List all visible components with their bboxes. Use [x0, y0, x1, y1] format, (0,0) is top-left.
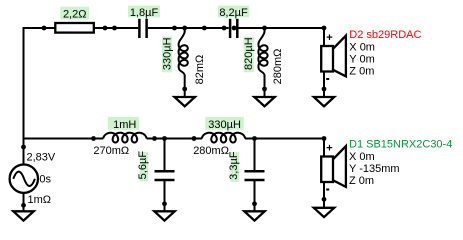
- node dot mid top rail: [202, 26, 207, 31]
- svg-text:8,2µF: 8,2µF: [219, 7, 248, 19]
- inductor 330uH coil: [179, 32, 188, 76]
- node dot source top terminal: [21, 145, 26, 150]
- node dot junction C5,6: [162, 136, 167, 141]
- speaker D2 stub bottom: [323, 72, 325, 98]
- svg-text:D1 SB15NRX2C30-4: D1 SB15NRX2C30-4: [349, 139, 452, 151]
- wire bottom rail seg2: [147, 138, 202, 140]
- capacitor 3,3uF label: [231, 152, 240, 182]
- svg-text:1mH: 1mH: [113, 119, 136, 131]
- ground L820: [254, 97, 274, 106]
- source stub bottom: [23, 193, 25, 212]
- node dot above ground source: [21, 203, 26, 208]
- svg-text:Z 0m: Z 0m: [349, 175, 374, 187]
- node dot left of resistor: [42, 26, 47, 31]
- wire top rail mid segment: [148, 27, 229, 29]
- svg-text:X 0m: X 0m: [349, 151, 375, 163]
- wire top rail left segment: [24, 27, 139, 29]
- speaker D2 stub top: [323, 27, 325, 46]
- capacitor 3,3uF stub bottom: [254, 181, 256, 211]
- svg-text:Y 0m: Y 0m: [349, 54, 374, 66]
- svg-text:0s: 0s: [39, 173, 51, 185]
- inductor 820uH stub bottom: [264, 75, 266, 97]
- node dot cap1 terminal: [112, 26, 117, 31]
- node dot before 1mH: [91, 136, 96, 141]
- svg-text:3,3µF: 3,3µF: [228, 151, 240, 180]
- capacitor 8,2uF label: [218, 6, 249, 18]
- inductor 820uH stub top: [264, 28, 266, 32]
- node dot junction 820uH: [262, 26, 267, 31]
- inductor 330uH stub bottom: [184, 75, 186, 97]
- svg-text:270mΩ: 270mΩ: [93, 145, 129, 157]
- node dot before 330uH-b: [192, 136, 197, 141]
- node dot after cap1: [172, 26, 177, 31]
- speaker D1 minus: [326, 189, 329, 191]
- svg-text:82mΩ: 82mΩ: [194, 55, 206, 85]
- node dot junction C3,3: [252, 136, 257, 141]
- node dot between 8,2uF plates: [232, 26, 237, 31]
- speaker D1 body: [321, 157, 333, 183]
- inductor 330uH stub top: [184, 28, 186, 32]
- speaker D1 cone: [332, 146, 346, 187]
- svg-text:1,8µF: 1,8µF: [130, 7, 159, 19]
- wire bottom rail seg3: [245, 138, 324, 140]
- svg-text:280mΩ: 280mΩ: [272, 49, 284, 85]
- capacitor 3,3uF plates: [245, 170, 265, 173]
- capacitor 5,6uF plates: [155, 170, 175, 173]
- speaker D2 cone: [332, 36, 346, 77]
- node dot above ground C3,3: [252, 201, 257, 206]
- node dot junction D1: [322, 136, 327, 141]
- node dot above ground 820uH: [262, 87, 267, 92]
- node dot right of resistor: [103, 26, 108, 31]
- ground D2: [314, 97, 334, 106]
- ground L330: [175, 97, 195, 106]
- node dot after 1mH: [152, 136, 157, 141]
- capacitor 1,8uF plates: [138, 19, 141, 38]
- svg-text:330µH: 330µH: [161, 37, 173, 70]
- svg-text:820µH: 820µH: [243, 37, 255, 70]
- inductor 1mH label: [108, 117, 139, 130]
- speaker D2 minus: [326, 78, 329, 80]
- ground source: [13, 211, 33, 220]
- node dot above ground C5,6: [162, 201, 167, 206]
- resistor 2,2ohm label: [60, 7, 89, 20]
- capacitor 5,6uF stub top: [164, 139, 166, 171]
- node dot junction L330 top: [182, 26, 187, 31]
- svg-text:280mΩ: 280mΩ: [193, 145, 229, 157]
- wire left rail vertical: [23, 27, 25, 165]
- voltage source circle: [10, 165, 38, 193]
- speaker D2 body: [321, 46, 333, 72]
- wire top rail right segment: [239, 27, 325, 29]
- ground C56: [154, 211, 174, 220]
- capacitor 5,6uF stub bottom: [164, 181, 166, 211]
- inductor 820uH coil: [258, 32, 267, 76]
- speaker D1 stub bottom: [323, 182, 325, 208]
- wire bottom rail seg1: [24, 138, 104, 140]
- svg-text:2,2Ω: 2,2Ω: [63, 8, 87, 20]
- ground D1: [314, 208, 334, 217]
- inductor 330uH label: [162, 37, 172, 73]
- svg-text:+: +: [326, 32, 332, 44]
- inductor 820uH label: [244, 37, 254, 73]
- node dot above ground D2: [322, 87, 327, 92]
- svg-text:Y -135mm: Y -135mm: [349, 163, 400, 175]
- voltage source sine: [13, 172, 35, 186]
- capacitor 8,2uF plates: [229, 19, 232, 38]
- svg-text:X 0m: X 0m: [349, 41, 375, 53]
- speaker D1 stub top: [323, 138, 325, 157]
- node dot before cap 8,2uF: [222, 26, 227, 31]
- svg-text:D2 sb29RDAC: D2 sb29RDAC: [349, 29, 421, 41]
- svg-text:1mΩ: 1mΩ: [28, 194, 52, 206]
- svg-text:330µH: 330µH: [208, 119, 241, 131]
- node dot above ground L330: [182, 87, 187, 92]
- ground C33: [244, 211, 264, 220]
- svg-text:Z 0m: Z 0m: [349, 66, 374, 78]
- svg-text:5,6µF: 5,6µF: [137, 151, 149, 180]
- svg-text:2,83V: 2,83V: [27, 151, 56, 163]
- svg-text:+: +: [326, 143, 332, 155]
- node dot above ground D1: [322, 197, 327, 202]
- inductor 330uH-b label: [205, 117, 244, 130]
- inductor 1mH coil: [103, 133, 146, 143]
- node dot junction D2: [322, 26, 327, 31]
- capacitor 1,8uF label: [128, 6, 160, 18]
- capacitor 3,3uF stub top: [254, 139, 256, 171]
- inductor 330uH-b coil: [202, 133, 245, 143]
- capacitor 5,6uF label: [140, 152, 149, 182]
- resistor 2,2ohm body: [55, 23, 94, 33]
